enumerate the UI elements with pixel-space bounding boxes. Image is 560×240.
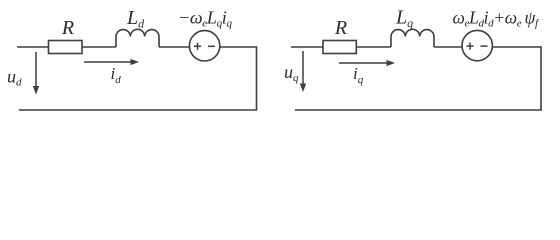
voltage source (q-axis back-emf) xyxy=(462,30,492,60)
arrow uq (voltage, down) xyxy=(300,51,306,92)
svg-text:R: R xyxy=(334,17,347,39)
minus sign in q-axis source xyxy=(481,45,488,47)
wire resistor to inductor (q-axis) xyxy=(356,46,391,48)
inductor Lq xyxy=(391,29,434,47)
wire bottom (d-axis) xyxy=(19,109,257,111)
minus sign in d-axis source xyxy=(208,45,215,47)
wire inductor to source (q-axis) xyxy=(434,46,462,48)
arrow iq (current, right) xyxy=(339,60,395,66)
wire right vertical (d-axis) xyxy=(256,46,258,110)
wire bottom (q-axis) xyxy=(295,109,542,111)
arrow id (current, right) xyxy=(84,59,139,65)
wire resistor to inductor xyxy=(82,46,116,48)
wire source to right corner (q-axis) xyxy=(492,46,541,48)
wire left-circuit top-left stub xyxy=(17,46,49,48)
plus sign in q-axis source xyxy=(466,43,473,50)
wire source to right corner xyxy=(220,46,257,48)
resistor R (d-axis) xyxy=(49,41,83,54)
svg-text:R: R xyxy=(61,17,74,39)
wire right vertical (q-axis) xyxy=(540,46,542,110)
plus sign in d-axis source xyxy=(194,43,201,50)
wire inductor to source xyxy=(159,46,190,48)
wire right-circuit top-left stub xyxy=(291,46,323,48)
resistor R (q-axis) xyxy=(323,41,356,54)
arrow ud (voltage, down) xyxy=(33,52,39,95)
voltage source (d-axis back-emf) xyxy=(189,31,219,61)
inductor Ld xyxy=(116,29,159,47)
